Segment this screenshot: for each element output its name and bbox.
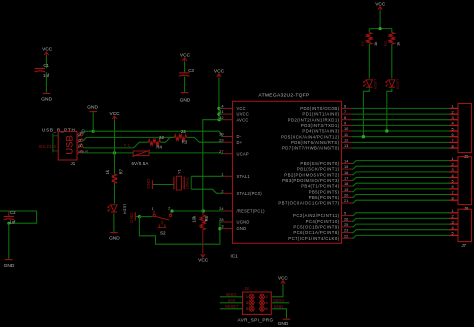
svg-text:7: 7 [344, 109, 346, 114]
svg-text:F 1: F 1 [124, 143, 131, 148]
svg-text:6: 6 [452, 132, 454, 137]
IC pin 6 PD0(INT0/OC0B) [342, 107, 353, 109]
net stub SCK [220, 302, 242, 304]
USB pin D- [77, 140, 81, 143]
USB pin D+ [77, 146, 81, 149]
wire PC to J7 pin 3 [352, 224, 450, 227]
svg-text:5: 5 [344, 211, 346, 216]
svg-text:32: 32 [219, 115, 223, 120]
junction [138, 215, 141, 218]
IC pin 13 PD7(INT7/HWB/AIN6/T0) [342, 147, 353, 149]
svg-text:PC2(AIN2/PCINT11): PC2(AIN2/PCINT11) [293, 213, 340, 218]
IC pin 17 PB3(PDO/MISO/PCINT3) [342, 179, 353, 181]
IC pin 20 PB6(PCINT6) [342, 196, 353, 198]
svg-text:5: 5 [452, 231, 454, 236]
wire PC to J7 pin 1 [352, 213, 450, 216]
IC pin 8 PD2(INT2/AIN1/RXD1) [342, 119, 353, 121]
svg-text:8: 8 [452, 196, 454, 201]
wire PD2 to J5 pin 3 [352, 119, 450, 121]
svg-text:PD0(INT0/OC0B): PD0(INT0/OC0B) [300, 106, 339, 111]
svg-text:3: 3 [452, 219, 454, 224]
svg-text:VBUS: VBUS [78, 149, 89, 154]
IC pin 16 PB2(PDI/MOSI/PCINT2) [342, 174, 353, 176]
svg-text:VCC: VCC [237, 106, 246, 111]
svg-text:3: 3 [246, 300, 248, 305]
svg-text:PB2(PDI/MOSI/PCINT2): PB2(PDI/MOSI/PCINT2) [284, 172, 339, 177]
svg-text:IC1: IC1 [231, 253, 239, 258]
junction [7, 222, 10, 225]
IC pin 18 PB4(T1/PCINT4) [342, 185, 353, 187]
wire [219, 107, 223, 109]
IC pin 23 PC6(OC1A/PCINT8) [342, 232, 353, 234]
junction on VCC rail [218, 118, 221, 121]
svg-text:R3: R3 [182, 139, 188, 144]
svg-text:19: 19 [344, 187, 348, 192]
svg-text:R2: R2 [383, 40, 388, 46]
IC pin 7 PD1(INT1/AIN0) [342, 113, 353, 115]
junction pin4 row [217, 107, 220, 110]
ground GND (C2) [5, 259, 13, 261]
svg-text:2: 2 [452, 214, 454, 219]
svg-text:VCC: VCC [180, 52, 191, 58]
wire PB2 to J6 pin 3 [352, 172, 450, 175]
J8 pad 3 [250, 300, 254, 305]
wire [113, 213, 115, 231]
svg-text:22: 22 [344, 233, 348, 238]
svg-text:7: 7 [452, 190, 454, 195]
svg-text:ATMEGA32U2-TQFP: ATMEGA32U2-TQFP [258, 93, 309, 99]
svg-text:3: 3 [452, 167, 454, 172]
svg-text:17: 17 [344, 176, 348, 181]
wire PD3 to J5 pin 4 [352, 124, 450, 126]
svg-text:9: 9 [344, 121, 346, 126]
svg-text:GND: GND [274, 304, 283, 309]
ground GND (LED4) [110, 232, 118, 234]
svg-text:RESET: RESET [225, 304, 239, 309]
resistor R1 (1k) [367, 33, 372, 45]
ground GND (USB) [89, 111, 97, 113]
svg-text:15: 15 [344, 164, 348, 169]
IC pin 30 D- [223, 136, 233, 138]
svg-text:AVCC: AVCC [237, 117, 249, 122]
svg-text:PB5(PCINT5): PB5(PCINT5) [309, 189, 340, 194]
wire S2 GND to IC UGND/GND [139, 217, 222, 245]
wire [368, 29, 370, 33]
wire [8, 223, 10, 259]
svg-text:31: 31 [219, 109, 223, 114]
resistor R3 (22) [174, 135, 186, 141]
J8 pad 1 [250, 294, 254, 299]
wire PC to J7 pin 2 [352, 218, 450, 221]
svg-text:VCC: VCC [42, 46, 53, 52]
svg-text:2: 2 [221, 188, 223, 193]
wire [114, 183, 116, 204]
svg-text:VCC: VCC [198, 258, 209, 264]
capacitor C1 [35, 68, 45, 70]
resistor R2 (1k) [389, 33, 394, 45]
svg-text:8: 8 [452, 143, 454, 148]
IC pin 2 XTAL2(PC0) [223, 192, 233, 194]
svg-text:D-: D- [237, 134, 242, 139]
svg-text:1k: 1k [395, 42, 400, 46]
IC pin 31 UVCC [223, 113, 233, 115]
svg-text:6: 6 [344, 104, 346, 109]
svg-text:11: 11 [344, 132, 348, 137]
svg-text:1k: 1k [373, 42, 378, 46]
resistor R7 (1k) [112, 174, 117, 183]
svg-text:PD3(INT3/TXD1): PD3(INT3/TXD1) [301, 123, 340, 128]
svg-text:UCAP: UCAP [237, 151, 249, 156]
svg-text:3: 3 [221, 224, 223, 229]
capacitor C2 [8, 211, 10, 217]
junction [379, 27, 382, 30]
svg-text:PD2(INT2/AIN1/RXD1): PD2(INT2/AIN1/RXD1) [288, 117, 340, 122]
wire /RESET net [172, 210, 223, 212]
wire PD1 to J5 pin 2 [352, 113, 450, 115]
svg-text:GND: GND [180, 97, 191, 103]
svg-text:PC4(PCINT10): PC4(PCINT10) [306, 219, 340, 224]
LED6 [389, 80, 395, 87]
svg-text:XTAL1: XTAL1 [237, 174, 251, 179]
ground GND (C1) [43, 92, 51, 94]
svg-text:3: 3 [452, 115, 454, 120]
svg-text:2: 2 [452, 109, 454, 114]
resistor R4 (22) [148, 139, 160, 145]
svg-text:PB3(PDO/MISO/PCINT3): PB3(PDO/MISO/PCINT3) [282, 178, 339, 183]
ground GND (C3) [181, 92, 189, 94]
svg-text:GND: GND [87, 105, 98, 111]
svg-text:7: 7 [452, 138, 454, 143]
svg-text:UVCC: UVCC [237, 112, 250, 117]
J8 pad 6 [260, 306, 264, 311]
svg-text:XTAL2(PC0): XTAL2(PC0) [237, 191, 263, 196]
capacitor C3 [179, 72, 189, 74]
svg-text:VCC: VCC [278, 275, 288, 280]
svg-text:26: 26 [344, 216, 348, 221]
IC pin 14 PB0(SS/PCINT0) [342, 162, 353, 164]
wire PD7 to J5 pin 8 [352, 147, 450, 149]
svg-text:PC7(ICP1/INT4/CLK0): PC7(ICP1/INT4/CLK0) [288, 236, 339, 241]
wire [136, 216, 140, 218]
svg-text:LED4: LED4 [123, 204, 128, 215]
wire LED5 column [363, 89, 369, 137]
IC pin 12 PD6(INT6/AIN5/RTS) [342, 141, 353, 143]
svg-text:PB4(T1/PCINT4): PB4(T1/PCINT4) [301, 184, 340, 189]
svg-text:1: 1 [452, 208, 454, 213]
fuse F1 (6V/0.5A) [133, 151, 149, 156]
svg-text:1: 1 [221, 171, 223, 176]
svg-text:GND: GND [278, 321, 289, 327]
net stub MOSI [272, 302, 289, 304]
svg-text:GND: GND [109, 236, 120, 242]
wire PD5 to J5 pin 6 [352, 136, 450, 138]
IC pin 19 PB5(PCINT5) [342, 191, 353, 193]
svg-text:2: 2 [452, 162, 454, 167]
svg-text:PD5(XCK/AIN4/PCINT12): PD5(XCK/AIN4/PCINT12) [281, 134, 340, 139]
wire R4 to R3 [160, 137, 174, 142]
svg-text:GND: GND [146, 178, 151, 189]
connector J6 [458, 157, 472, 205]
net stub MISO [220, 296, 242, 298]
wire PB6 to J6 pin 7 [352, 195, 450, 198]
wire [92, 112, 94, 131]
connector J7 [458, 209, 472, 241]
wire USB GND [83, 131, 94, 134]
IC pin 5 PC2(AIN2/PCINT11) [342, 215, 353, 217]
LED5 [366, 80, 372, 87]
IC pin 21 PB7(OC0A/OC1C/PCINT7) [342, 202, 353, 204]
IC pin 29 D+ [223, 141, 233, 143]
svg-text:6V/0.5A: 6V/0.5A [132, 161, 149, 166]
svg-text:2: 2 [266, 294, 268, 299]
svg-text:C1: C1 [43, 63, 49, 68]
svg-text:PC6(OC1A/PCINT8): PC6(OC1A/PCINT8) [293, 230, 339, 235]
svg-text:LED5: LED5 [373, 79, 378, 90]
svg-text:6: 6 [266, 306, 268, 311]
svg-text:SHLD1*2: SHLD1*2 [39, 144, 57, 149]
wire PD4 to J5 pin 5 [352, 130, 450, 132]
wire (off-sheet ground net) [0, 211, 37, 223]
svg-text:J6: J6 [464, 206, 469, 211]
junction LED5-PD5 [362, 135, 365, 138]
IC pin 11 PD5(XCK/AIN4/PCINT12) [342, 136, 353, 138]
IC pin 22 PC7(ICP1/INT4/CLK0) [342, 237, 353, 239]
IC pin 27 UCAP [223, 153, 233, 155]
J8 pad 2 [260, 294, 264, 299]
IC pin 15 PB1(SCK/PCINT1) [342, 168, 353, 170]
wire crystal to XTAL1 (pin 1) [191, 175, 223, 177]
wire VCC rail [218, 78, 220, 120]
wire [202, 230, 204, 253]
svg-text:5: 5 [246, 306, 248, 311]
J8 pad 5 [250, 306, 254, 311]
svg-text:C3: C3 [188, 68, 194, 73]
wire USB D+ [83, 142, 149, 148]
junction [218, 227, 221, 230]
svg-text:5: 5 [452, 179, 454, 184]
svg-text:R7: R7 [119, 168, 124, 174]
wire [153, 184, 174, 186]
IC pin 25 PC5(OC1B/PCINT9) [342, 226, 353, 228]
crystal Y1 16MHz [173, 177, 175, 190]
svg-text:MOSI: MOSI [273, 298, 283, 303]
wire PB4 to J6 pin 5 [352, 183, 450, 186]
svg-text:PC5(OC1B/PCINT9): PC5(OC1B/PCINT9) [293, 225, 339, 230]
wire LED6 column [387, 89, 392, 131]
svg-text:PB6(PCINT6): PB6(PCINT6) [309, 195, 340, 200]
wire PB5 to J6 pin 6 [352, 189, 450, 192]
wire [368, 44, 370, 78]
svg-text:12: 12 [344, 138, 348, 143]
wire crystal to XTAL2 (pin 2) [191, 189, 223, 193]
wire PB7 to J6 pin 8 [352, 200, 450, 203]
junction [92, 130, 95, 133]
connector J5 [458, 104, 472, 153]
IC pin 4 VCC [223, 107, 233, 109]
wire PD0 to J5 pin 1 [352, 107, 450, 109]
svg-text:22: 22 [181, 129, 186, 134]
IC pin 9 PD3(INT3/TXD1) [342, 124, 353, 126]
svg-text:25: 25 [344, 222, 348, 227]
J8 pad 4 [260, 300, 264, 305]
power flag VCC (reset pullup, inverted) [201, 254, 205, 257]
svg-text:10k: 10k [192, 215, 197, 223]
junction pin31 row [217, 113, 220, 116]
wire R6 to VCC rail (AVCC row) [203, 120, 219, 211]
svg-text:PD7(INT7/HWB/AIN6/T0): PD7(INT7/HWB/AIN6/T0) [282, 146, 340, 151]
ground GND (J8) [283, 318, 291, 320]
IC pin 1 XTAL1 [223, 175, 233, 177]
svg-text:J1: J1 [71, 161, 76, 166]
svg-text:GND: GND [129, 212, 134, 223]
svg-text:1: 1 [452, 156, 454, 161]
svg-text:/RESET(PC1): /RESET(PC1) [237, 209, 266, 214]
wire [45, 56, 47, 68]
svg-text:8: 8 [344, 115, 346, 120]
svg-text:18: 18 [344, 181, 348, 186]
IC pin 3 GND [223, 228, 233, 230]
svg-text:1uf: 1uf [9, 219, 16, 224]
wire J8 GND [272, 309, 286, 319]
svg-text:R4: R4 [156, 145, 162, 150]
wire PB1 to J6 pin 2 [352, 166, 450, 169]
svg-text:GND: GND [41, 97, 52, 103]
wire PB3 to J6 pin 4 [352, 178, 450, 181]
IC pin 10 PD4(INT5/AIN3) [342, 130, 353, 132]
svg-text:GND: GND [237, 226, 247, 231]
wire fuse to IC pin 27 (UCAP) [149, 152, 223, 155]
svg-text:PB0(SS/PCINT0): PB0(SS/PCINT0) [300, 161, 339, 166]
svg-text:PB1(SCK/PCINT1): PB1(SCK/PCINT1) [297, 167, 340, 172]
svg-text:16MHz: 16MHz [184, 177, 189, 189]
junction LED6-PD4 [385, 129, 388, 132]
IC U1 ATMEGA32U2-TQFP body [233, 101, 342, 243]
svg-text:PD1(INT1/AIN0): PD1(INT1/AIN0) [302, 112, 339, 117]
wire PC to J7 pin 5 [352, 235, 450, 238]
wire PB0 to J6 pin 1 [352, 161, 450, 164]
LED4 [111, 205, 117, 212]
junction at S2 pin2 [170, 209, 173, 212]
svg-text:22: 22 [159, 135, 164, 140]
svg-text:S2: S2 [160, 231, 166, 236]
svg-text:MISO: MISO [226, 292, 236, 297]
svg-text:SCK: SCK [228, 298, 237, 303]
svg-text:GND: GND [4, 263, 15, 269]
wire [184, 77, 186, 92]
svg-text:16: 16 [344, 170, 348, 175]
net stub RESET [220, 308, 242, 310]
svg-text:5: 5 [452, 126, 454, 131]
IC pin 26 PC4(PCINT10) [342, 220, 353, 222]
svg-text:13: 13 [344, 143, 348, 148]
wire [272, 285, 283, 297]
junction VCC-VBUS [113, 151, 116, 154]
wire USB VBUS [83, 152, 134, 154]
IC pin 32 AVCC [223, 119, 233, 121]
shield tie wire [53, 135, 58, 137]
junction at R6 [202, 209, 205, 212]
wire R3 to IC pin 29 [186, 137, 222, 142]
svg-text:D+: D+ [237, 140, 243, 145]
wire USB D- [83, 137, 175, 141]
wire [114, 120, 116, 153]
svg-text:1: 1 [246, 294, 248, 299]
IC pin 28 UGND [223, 221, 233, 223]
svg-text:23: 23 [344, 228, 348, 233]
wire [220, 228, 223, 230]
wire PD6 to J5 pin 7 [352, 141, 450, 143]
svg-text:J8: J8 [244, 286, 249, 291]
USB pin VBUS [77, 152, 81, 154]
svg-text:C2: C2 [10, 210, 16, 215]
wire [369, 28, 392, 30]
wire [379, 11, 381, 29]
wire GND to switch [139, 216, 152, 218]
svg-text:27: 27 [219, 149, 223, 154]
svg-text:UGND: UGND [237, 220, 250, 225]
wire PC to J7 pin 4 [352, 230, 450, 233]
svg-text:R6: R6 [204, 215, 209, 221]
svg-text:1: 1 [452, 104, 454, 109]
USB pin GND [77, 135, 81, 138]
svg-text:USB: USB [65, 135, 76, 155]
svg-text:29: 29 [219, 137, 223, 142]
svg-text:6: 6 [452, 184, 454, 189]
wire D- net to IC pin 30 [93, 131, 223, 136]
wire [45, 72, 47, 92]
svg-text:21: 21 [344, 198, 348, 203]
svg-text:J7: J7 [462, 243, 467, 248]
svg-text:PD4(INT5/AIN3): PD4(INT5/AIN3) [302, 129, 339, 134]
svg-text:R1: R1 [360, 40, 365, 46]
wire [184, 62, 186, 73]
svg-text:PD6(INT6/AIN5/RTS): PD6(INT6/AIN5/RTS) [291, 140, 340, 145]
svg-text:AVR_SPI_PRG: AVR_SPI_PRG [238, 318, 274, 323]
svg-text:PB7(OC0A/OC1C/PCINT7): PB7(OC0A/OC1C/PCINT7) [278, 201, 339, 206]
IC pin 24 /RESET(PC1) [223, 210, 233, 212]
resistor R6 (10k) [202, 211, 204, 215]
svg-text:LED6: LED6 [395, 79, 400, 90]
svg-text:28: 28 [219, 217, 223, 222]
svg-text:Y1: Y1 [176, 169, 181, 174]
wire [114, 153, 116, 174]
